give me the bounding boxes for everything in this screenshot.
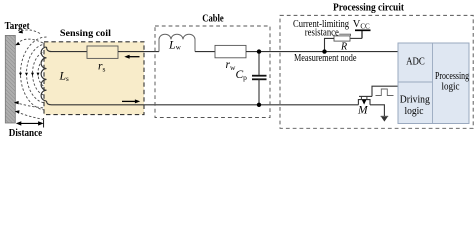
wire: coil top to resistor rs [47, 47, 88, 52]
distance double arrow [16, 118, 44, 128]
leader line from resistance text to R [339, 34, 350, 36]
capacitor Cp stem top [258, 52, 260, 75]
gate wire to driving logic [372, 86, 398, 96]
field line arc outer [21, 37, 47, 110]
svg-text:ADC: ADC [406, 55, 425, 67]
arrowhead bottom stub 2 leftward [15, 110, 20, 114]
field stub arc 2 to target [19, 39, 44, 43]
transistor M bulk arrow [362, 100, 367, 105]
svg-text:rw: rw [226, 59, 236, 72]
arrowhead left stub 2 [15, 42, 20, 45]
svg-text:Measurement node: Measurement node [294, 53, 357, 64]
transistor M gate fingers [361, 96, 367, 99]
inductor Ls (coil on left edge) [41, 47, 46, 101]
field line arc 3 [33, 52, 47, 96]
resistor R [334, 36, 350, 41]
field stub arc to target top [21, 30, 41, 34]
svg-text:Cp: Cp [236, 69, 248, 82]
wire: coil bottom to right (bottom wire) [47, 101, 359, 105]
svg-text:Distance: Distance [9, 128, 43, 139]
Vcc power symbol [355, 30, 371, 38]
transistor M channel [358, 100, 370, 105]
junction dot cap top [257, 49, 261, 53]
svg-text:Processing circuit: Processing circuit [333, 1, 404, 13]
svg-text:Driving: Driving [400, 94, 430, 106]
label Current-limiting resistance [293, 19, 349, 38]
inductor Lw [159, 34, 195, 51]
capacitor Cp plates [252, 76, 267, 80]
wire: rw to ADC block [246, 51, 398, 53]
pulse waveform symbol [376, 89, 394, 96]
arrowhead left top stub [18, 30, 23, 33]
logic block background [398, 43, 469, 124]
divider horizontal between ADC and Driving logic [398, 81, 433, 83]
wire: transistor to ground [370, 105, 384, 117]
svg-text:Lw: Lw [168, 37, 182, 51]
transistor M gate bar [359, 95, 372, 97]
svg-text:M: M [357, 104, 369, 116]
field stub arc bottom return 2 [18, 112, 45, 119]
capacitor Cp stem bottom [258, 79, 260, 105]
svg-text:logic: logic [442, 80, 460, 92]
field stub arc bottom return [16, 103, 45, 108]
label Driving logic [400, 94, 430, 117]
ground symbol [381, 116, 389, 121]
svg-text:VCC: VCC [353, 19, 370, 31]
svg-text:logic: logic [405, 105, 424, 117]
junction dot measurement node [322, 49, 326, 53]
wire: rs to cable [118, 51, 159, 53]
svg-text:R: R [340, 41, 347, 52]
field line arc inner [38, 59, 47, 87]
wire: Vcc to resistor R [350, 37, 362, 39]
label Processing logic [435, 70, 469, 93]
svg-text:Target: Target [5, 21, 30, 32]
cable box [155, 26, 270, 118]
processing circuit box [280, 15, 473, 128]
resistor rs [87, 46, 118, 58]
current arrow top (leftward) [124, 55, 139, 59]
field line arc 2 [27, 44, 47, 103]
svg-text:Sensing coil: Sensing coil [60, 29, 111, 39]
target metal bar (hatched) [5, 35, 15, 123]
svg-text:Cable: Cable [202, 12, 224, 24]
resistor rw [215, 45, 246, 57]
field arrowheads downward [19, 73, 40, 76]
wire: R to measurement node [325, 38, 335, 51]
sensing coil box [44, 42, 144, 115]
junction dot cap bottom [257, 103, 261, 107]
current arrow bottom (rightward) [122, 99, 140, 103]
arrowhead bottom stub leftward [14, 101, 19, 105]
wire: Lw to rw [195, 51, 215, 53]
divider vertical between columns [432, 43, 434, 124]
